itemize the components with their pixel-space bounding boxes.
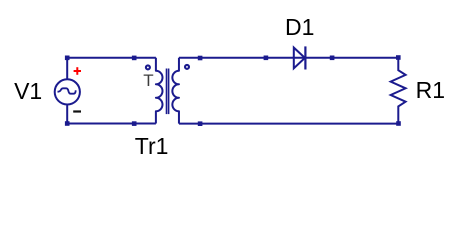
transformer core xyxy=(167,69,169,115)
transformer Tr1 secondary winding xyxy=(172,58,179,124)
plus sign of V1 xyxy=(74,67,81,75)
diode D1 cathode bar xyxy=(304,46,306,69)
label R1 xyxy=(416,79,445,102)
polarity dot primary xyxy=(146,65,150,69)
wire top primary xyxy=(67,57,156,59)
diode D1 triangle xyxy=(294,48,305,69)
wire V1 top vertical xyxy=(66,58,68,79)
node secondary bottom left xyxy=(198,121,203,126)
wire bottom primary xyxy=(67,123,156,125)
node R1 bottom xyxy=(396,121,401,126)
node primary top mid xyxy=(132,56,137,61)
svg-text:T: T xyxy=(143,71,153,90)
resistor R1 zigzag xyxy=(391,58,406,124)
junction dots xyxy=(65,55,401,126)
wire bottom secondary xyxy=(179,123,398,125)
minus sign of V1 xyxy=(73,110,81,112)
transformer Tr1 primary winding xyxy=(156,58,163,124)
node cathode xyxy=(330,56,335,61)
wire V1 bottom vertical xyxy=(66,105,68,123)
node V1 top xyxy=(65,56,70,61)
node secondary top left xyxy=(198,56,203,61)
polarity dot secondary xyxy=(185,65,189,69)
node anode xyxy=(264,56,269,61)
node primary bottom mid xyxy=(132,121,137,126)
node R1 top xyxy=(396,55,401,60)
wire top secondary xyxy=(179,57,398,59)
label V1 xyxy=(14,80,42,103)
AC source V1 xyxy=(55,79,80,104)
label Tr1 xyxy=(135,135,169,158)
node V1 bottom xyxy=(65,121,70,126)
label D1 xyxy=(285,16,314,39)
